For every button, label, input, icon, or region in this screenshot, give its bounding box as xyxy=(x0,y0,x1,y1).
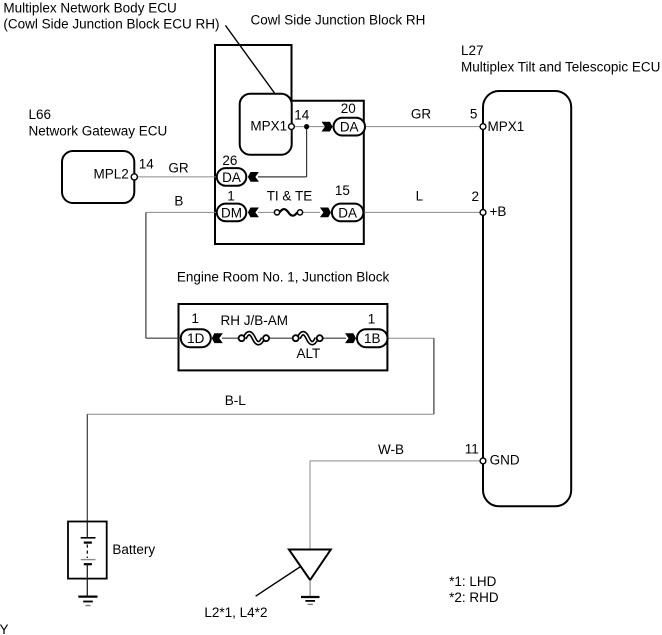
svg-text:B-L: B-L xyxy=(225,393,247,408)
svg-text:5: 5 xyxy=(470,107,478,122)
svg-text:MPX1: MPX1 xyxy=(488,119,525,134)
svg-text:11: 11 xyxy=(465,442,479,457)
svg-text:1: 1 xyxy=(368,311,376,326)
svg-text:1B: 1B xyxy=(364,331,381,346)
svg-text:1: 1 xyxy=(227,188,235,203)
svg-text:L2*1, L4*2: L2*1, L4*2 xyxy=(204,605,267,620)
svg-text:Cowl Side Junction Block RH: Cowl Side Junction Block RH xyxy=(251,12,426,27)
svg-text:+B: +B xyxy=(490,204,507,219)
svg-text:TI & TE: TI & TE xyxy=(267,188,313,203)
svg-text:20: 20 xyxy=(341,101,356,116)
svg-text:ALT: ALT xyxy=(297,346,321,361)
svg-text:L: L xyxy=(416,188,424,203)
svg-text:MPX1: MPX1 xyxy=(250,118,287,133)
svg-text:14: 14 xyxy=(294,108,310,123)
svg-text:Network Gateway ECU: Network Gateway ECU xyxy=(29,124,168,139)
svg-text:*2: RHD: *2: RHD xyxy=(449,590,499,605)
svg-text:DM: DM xyxy=(221,205,242,220)
svg-text:L27: L27 xyxy=(461,43,484,58)
svg-text:*1: LHD: *1: LHD xyxy=(449,574,497,589)
svg-text:DA: DA xyxy=(222,170,241,185)
svg-text:DA: DA xyxy=(338,205,357,220)
svg-text:DA: DA xyxy=(340,120,359,135)
svg-text:1: 1 xyxy=(191,311,199,326)
svg-text:L66: L66 xyxy=(29,107,52,122)
svg-text:B: B xyxy=(174,194,183,209)
svg-text:26: 26 xyxy=(222,153,237,168)
svg-text:Multiplex Network Body ECU: Multiplex Network Body ECU xyxy=(3,1,176,16)
svg-text:GR: GR xyxy=(168,161,189,176)
svg-text:W-B: W-B xyxy=(378,442,404,457)
svg-text:15: 15 xyxy=(335,183,350,198)
svg-text:Y: Y xyxy=(0,622,9,635)
svg-text:(Cowl Side Junction Block ECU: (Cowl Side Junction Block ECU RH) xyxy=(3,16,219,31)
svg-text:1D: 1D xyxy=(187,331,205,346)
svg-text:GND: GND xyxy=(490,453,520,468)
svg-text:RH J/B-AM: RH J/B-AM xyxy=(221,313,289,328)
svg-text:Battery: Battery xyxy=(112,542,155,557)
svg-text:2: 2 xyxy=(472,189,480,204)
svg-text:GR: GR xyxy=(411,106,432,121)
svg-text:14: 14 xyxy=(139,157,155,172)
svg-text:Engine Room No. 1, Junction Bl: Engine Room No. 1, Junction Block xyxy=(177,270,390,285)
svg-text:MPL2: MPL2 xyxy=(94,167,129,182)
svg-text:Multiplex Tilt and Telescopic: Multiplex Tilt and Telescopic ECU xyxy=(461,60,660,75)
